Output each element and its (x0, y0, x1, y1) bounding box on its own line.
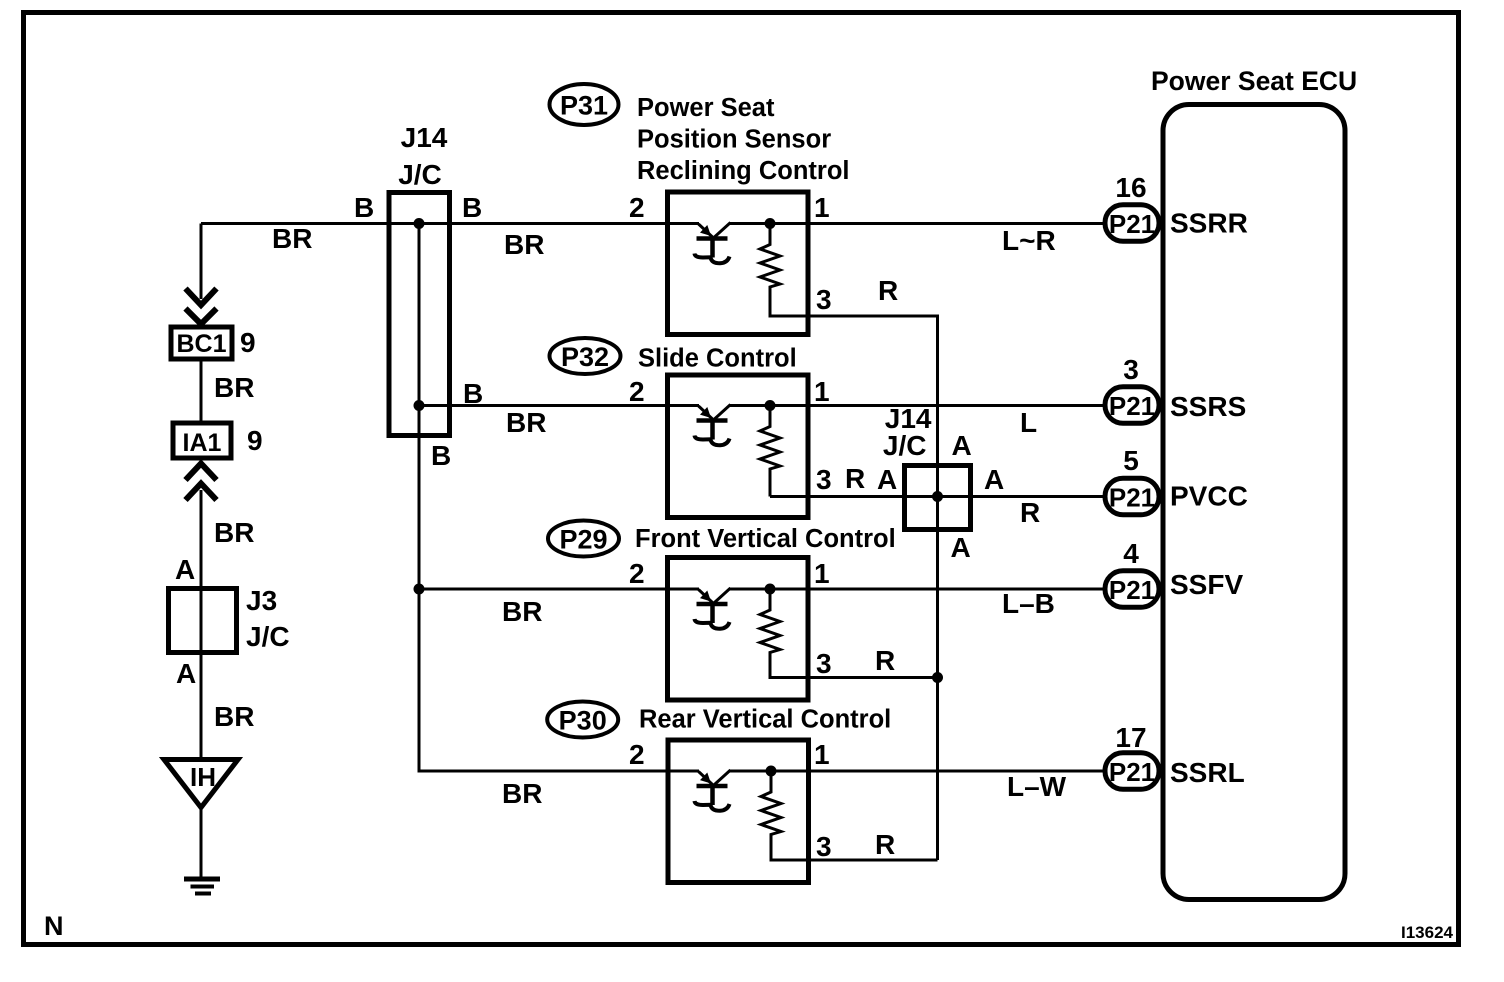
svg-text:A: A (984, 464, 1004, 495)
svg-text:P21: P21 (1109, 575, 1155, 605)
resistor in P32 with pin3 wire R (760, 406, 780, 497)
ECU P21 Power Seat ECU box (1163, 105, 1345, 900)
svg-text:J/C: J/C (398, 159, 442, 190)
svg-text:B: B (431, 440, 451, 471)
connector arrows out of IA1 (186, 464, 217, 501)
svg-text:IH: IH (190, 762, 216, 792)
diagram note N (44, 911, 64, 941)
svg-text:B: B (462, 192, 482, 223)
svg-text:P21: P21 (1109, 209, 1155, 239)
node junction dot R net at block3 pin3 (932, 672, 943, 683)
svg-text:16: 16 (1115, 172, 1146, 203)
wire BR BC1 to IA1 (201, 359, 254, 423)
connector pin 17 P21 SSRL (1105, 722, 1245, 789)
svg-text:1: 1 (814, 192, 830, 223)
svg-text:Reclining Control: Reclining Control (637, 157, 850, 185)
sensor block P31 reclining control (629, 192, 898, 335)
node junction dot P29 pin1 (765, 584, 776, 595)
wire BR from J14 J/C to block2 pin2 (419, 378, 699, 438)
svg-text:J3: J3 (246, 585, 277, 616)
wire BR from riser to block3 pin2 (419, 589, 699, 627)
connector arrows into BC1 (186, 289, 217, 325)
svg-text:L: L (1020, 407, 1037, 438)
svg-text:P29: P29 (559, 525, 607, 555)
svg-text:Power Seat: Power Seat (637, 94, 775, 122)
svg-text:3: 3 (816, 831, 832, 862)
svg-text:R: R (878, 275, 898, 306)
svg-text:P30: P30 (559, 706, 607, 736)
sensor block P29 front vertical control (629, 558, 895, 701)
junction connector J14 J/C tall (389, 122, 450, 436)
node junction dot P30 pin1 (766, 766, 777, 777)
svg-text:2: 2 (629, 558, 645, 589)
svg-text:BR: BR (504, 229, 544, 260)
transistor in P29 (695, 588, 731, 629)
svg-text:P21: P21 (1109, 483, 1155, 513)
label BR on block4 pin2 wire (502, 778, 542, 809)
svg-text:L~R: L~R (1002, 225, 1056, 256)
svg-text:A: A (877, 464, 897, 495)
wire BR IA1 to J3 (175, 490, 254, 588)
svg-text:9: 9 (240, 327, 256, 358)
svg-text:BR: BR (272, 223, 312, 254)
ECU label (1151, 66, 1357, 96)
svg-text:B: B (463, 378, 483, 409)
svg-text:R: R (875, 645, 895, 676)
svg-text:9: 9 (247, 425, 263, 456)
junction connector J14 J/C square (883, 403, 971, 530)
svg-text:P31: P31 (560, 91, 608, 121)
svg-text:17: 17 (1115, 722, 1146, 753)
callout P30 (547, 702, 891, 738)
svg-text:1: 1 (814, 739, 830, 770)
svg-text:I13624: I13624 (1401, 923, 1454, 942)
svg-text:A: A (952, 430, 972, 461)
wire SSRL (L-W) block4 pin1 to ECU (730, 771, 1105, 802)
connector pin 16 P21 SSRR (1105, 172, 1248, 241)
svg-text:4: 4 (1123, 538, 1139, 569)
svg-text:3: 3 (816, 464, 832, 495)
callout P31 (550, 84, 850, 185)
callout P29 (548, 521, 896, 557)
wire SSFV (L-B) block3 pin1 to ECU (730, 588, 1104, 619)
svg-text:3: 3 (816, 284, 832, 315)
transistor in P31 (695, 223, 731, 264)
svg-text:B: B (354, 192, 374, 223)
svg-text:1: 1 (814, 376, 830, 407)
svg-text:L–W: L–W (1007, 771, 1067, 802)
wire SSRS (L) block2 pin1 to ECU (730, 406, 1104, 439)
resistor in P29 with pin3 wire R (760, 589, 938, 678)
transistor in P32 (695, 405, 731, 446)
svg-text:P21: P21 (1109, 757, 1155, 787)
svg-text:N: N (44, 911, 64, 941)
connector BC1 pin 9 (171, 327, 256, 359)
svg-text:Power Seat ECU: Power Seat ECU (1151, 66, 1357, 96)
svg-text:Slide Control: Slide Control (638, 345, 797, 373)
resistor in P30 with pin3 wire R (761, 771, 938, 860)
svg-text:J14: J14 (401, 122, 448, 153)
wire BR J3 to IH (176, 652, 254, 759)
node junction dot P31 pin1 (765, 218, 776, 229)
svg-text:IA1: IA1 (183, 429, 222, 457)
ground symbol (184, 879, 220, 894)
svg-text:3: 3 (1123, 354, 1139, 385)
ground triangle IH (164, 760, 238, 808)
node junction dot J14 bottom (414, 400, 425, 411)
wire R net vertical from block1 pin3 down to block4 pin3 (938, 316, 940, 860)
sensor block P30 rear vertical control (629, 739, 895, 883)
wire IH to ground (200, 807, 203, 879)
svg-text:BR: BR (502, 778, 542, 809)
connector pin 4 P21 SSFV (1105, 538, 1243, 607)
svg-text:SSFV: SSFV (1170, 569, 1243, 600)
svg-text:A: A (951, 532, 971, 563)
svg-text:P21: P21 (1109, 391, 1155, 421)
node junction dot J14 square (A) (932, 491, 943, 502)
junction connector J3 J/C (169, 585, 290, 653)
svg-text:A: A (176, 658, 196, 689)
node junction dot J14 top (414, 218, 425, 229)
wire B/BR from left riser to J14 J/C (201, 192, 699, 260)
transistor in P30 (695, 770, 731, 811)
svg-text:2: 2 (629, 192, 645, 223)
svg-text:J/C: J/C (883, 430, 927, 461)
node A below J14 square (951, 532, 971, 563)
svg-text:SSRL: SSRL (1170, 757, 1245, 788)
svg-text:R: R (875, 829, 895, 860)
svg-text:Position Sensor: Position Sensor (637, 126, 831, 154)
wire riser BC1 branch (200, 224, 203, 300)
svg-text:3: 3 (816, 648, 832, 679)
connector IA1 pin 9 (173, 423, 263, 458)
svg-text:P32: P32 (561, 342, 609, 372)
svg-text:SSRR: SSRR (1170, 208, 1248, 239)
svg-text:BR: BR (214, 517, 254, 548)
svg-text:A: A (175, 554, 195, 585)
svg-text:BR: BR (214, 701, 254, 732)
svg-text:R: R (845, 463, 865, 494)
wire B riser from J14 J/C down to block3 and block4 (419, 406, 699, 772)
svg-text:1: 1 (814, 558, 830, 589)
svg-text:5: 5 (1123, 445, 1139, 476)
connector pin 3 P21 SSRS (1105, 354, 1246, 423)
svg-text:PVCC: PVCC (1170, 481, 1248, 512)
node A right of J14 square (984, 464, 1004, 495)
diagram id I13624 (1401, 923, 1454, 942)
svg-text:BR: BR (214, 372, 254, 403)
wire PVCC (R) block2 pin3 through J14 to ECU (770, 497, 1103, 529)
resistor in P31 with pin3 wire R (760, 224, 939, 317)
node junction dot riser at block3 wire (414, 584, 425, 595)
svg-text:BR: BR (502, 596, 542, 627)
svg-text:Rear Vertical Control: Rear Vertical Control (639, 706, 891, 734)
svg-text:J/C: J/C (246, 621, 290, 652)
sensor block P32 slide control (629, 375, 897, 518)
svg-text:2: 2 (629, 739, 645, 770)
svg-text:BC1: BC1 (176, 330, 226, 358)
callout P32 (550, 338, 797, 374)
wire SSRR (L-R) block1 pin1 to ECU (730, 224, 1104, 257)
node A above J14 square (952, 430, 972, 461)
svg-text:R: R (1020, 497, 1040, 528)
connector pin 5 P21 PVCC (1105, 445, 1248, 515)
svg-text:SSRS: SSRS (1170, 391, 1246, 422)
node junction dot P32 pin1 (765, 400, 776, 411)
svg-text:2: 2 (629, 376, 645, 407)
svg-text:L–B: L–B (1002, 588, 1055, 619)
svg-text:Front Vertical Control: Front Vertical Control (635, 525, 896, 553)
svg-text:BR: BR (506, 407, 546, 438)
